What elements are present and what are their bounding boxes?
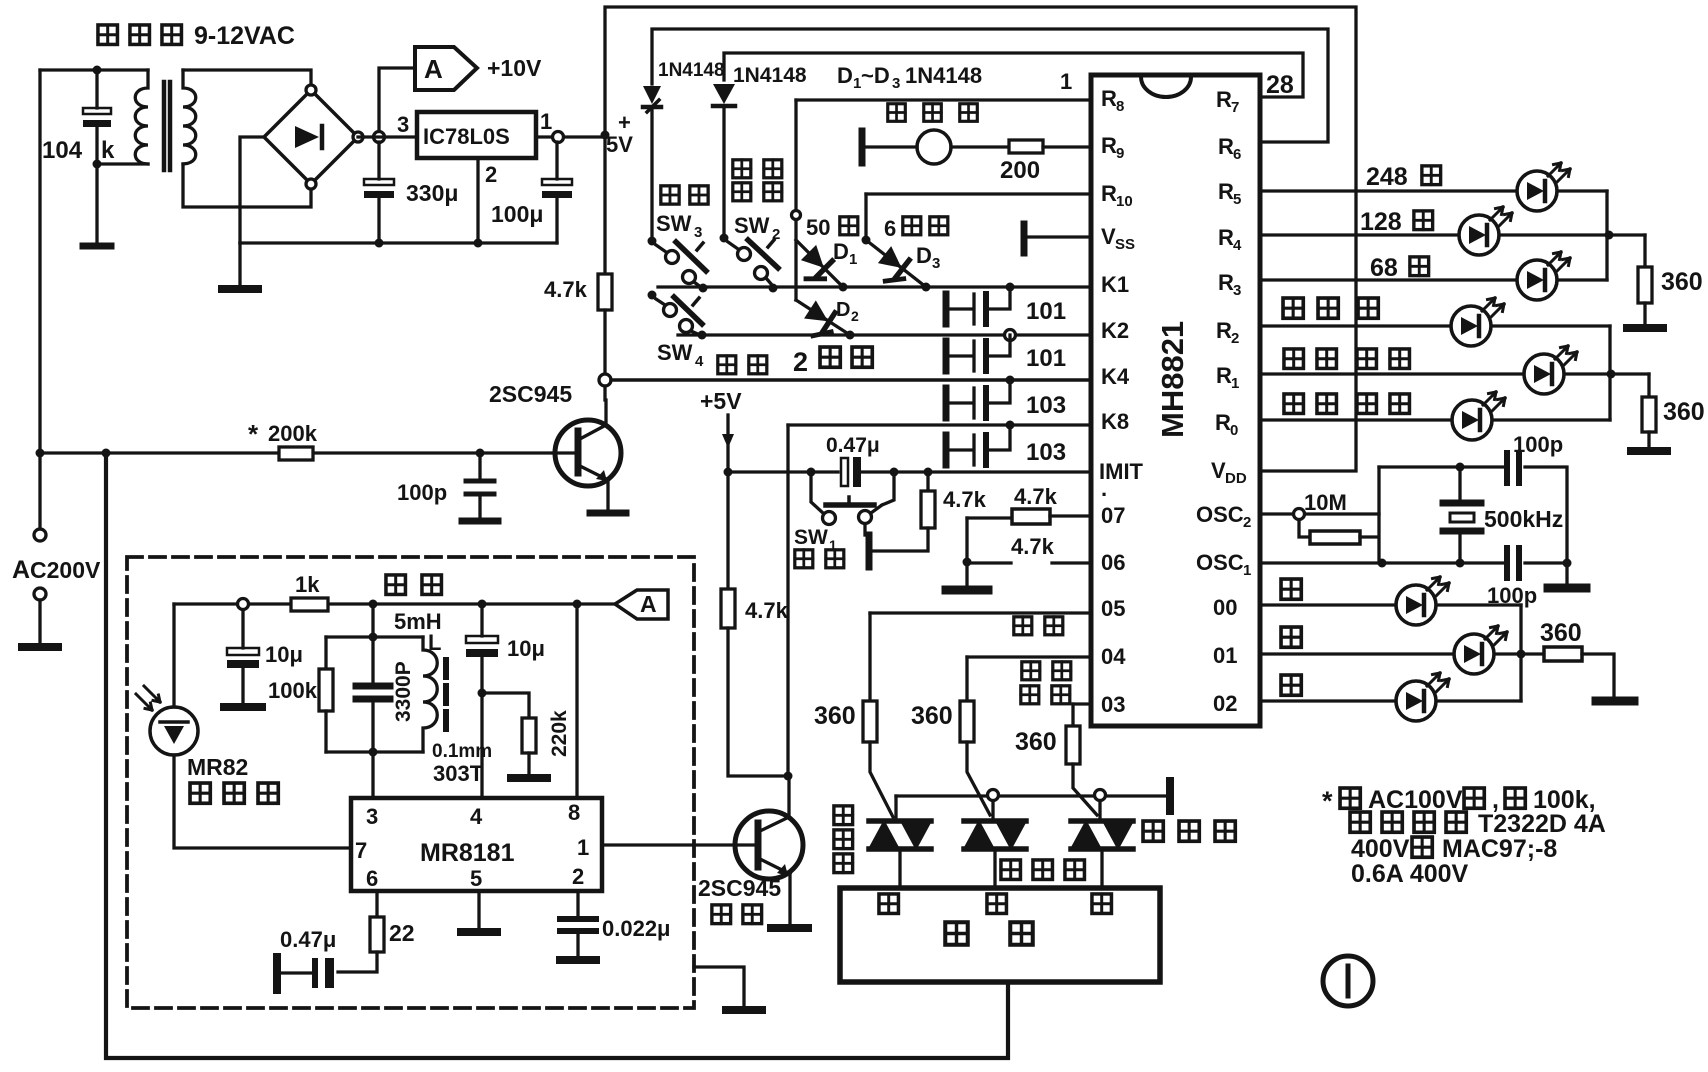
svg-text:V: V <box>1211 458 1226 483</box>
svg-text:0.022μ: 0.022μ <box>602 916 671 941</box>
svg-text:4.7k: 4.7k <box>1014 484 1058 509</box>
wire triac bus <box>896 794 1166 797</box>
node K4 left <box>599 374 611 386</box>
svg-text:7: 7 <box>355 838 367 863</box>
svg-text:K8: K8 <box>1101 409 1129 434</box>
resistor 4.7k imit <box>872 472 935 551</box>
resistor 200 <box>1009 140 1091 153</box>
svg-text:2: 2 <box>1243 514 1251 531</box>
buzzer terminal <box>859 131 866 163</box>
svg-text:1: 1 <box>1060 69 1072 94</box>
wire pin1 to Q2 base <box>602 843 735 846</box>
capacitor 103 a <box>946 380 1010 418</box>
capacitor 101 a <box>946 287 1010 324</box>
inductor core dashed <box>443 660 449 735</box>
MR8181 pin labels <box>355 800 589 891</box>
wire 01 row <box>1260 652 1544 655</box>
svg-text:4: 4 <box>1233 237 1242 254</box>
light arrows MR82 <box>136 686 160 710</box>
svg-text:360: 360 <box>911 702 953 730</box>
transformer T1 secondary <box>183 70 196 164</box>
svg-text:R: R <box>1218 179 1234 204</box>
label SW4 <box>657 340 704 370</box>
svg-text:OSC: OSC <box>1196 502 1244 527</box>
svg-text:AC100V: AC100V <box>1368 786 1463 814</box>
wire LED common c <box>1519 605 1522 701</box>
svg-text:0: 0 <box>1230 422 1238 439</box>
label 50zhou D1 <box>806 215 830 240</box>
svg-text:8: 8 <box>1116 98 1124 115</box>
wire bridge left to ground rail <box>240 137 264 243</box>
resistor 360 b <box>1631 374 1667 451</box>
wire +5V down to 4.7k <box>603 135 606 274</box>
label buzzer (fengmingqi) <box>888 104 978 122</box>
label dingshi (timer) <box>661 186 708 204</box>
label zhong <box>1281 627 1301 647</box>
wire 06 line with gap <box>967 561 1091 564</box>
label fang zi ran feng <box>733 160 782 201</box>
capacitor 100u <box>542 142 572 243</box>
LED R3 <box>1517 252 1570 300</box>
wire R7 loop <box>724 53 1303 97</box>
IC left pin labels <box>1099 86 1144 717</box>
diode D3 <box>866 240 926 289</box>
LED R2 <box>1451 298 1504 346</box>
switch SW4 <box>648 291 707 340</box>
svg-text:K1: K1 <box>1101 272 1129 297</box>
svg-text:SW: SW <box>656 211 692 236</box>
svg-text:248: 248 <box>1366 163 1408 191</box>
svg-text:06: 06 <box>1101 550 1125 575</box>
note line 1 <box>1322 786 1596 816</box>
svg-text:1N4148: 1N4148 <box>658 60 725 81</box>
wire LED common b <box>1608 326 1611 420</box>
wire to transformer primary bottom <box>97 162 148 165</box>
svg-text:68: 68 <box>1370 254 1398 282</box>
svg-text:03: 03 <box>1101 692 1125 717</box>
svg-text:4.7k: 4.7k <box>1011 534 1055 559</box>
label D2 <box>836 299 859 324</box>
wire 07 stub to ground <box>946 518 988 590</box>
wire LED common a <box>1605 191 1608 280</box>
svg-text:3300P: 3300P <box>392 661 415 722</box>
switch SW3 <box>648 237 707 289</box>
ground 104k <box>83 243 111 250</box>
svg-text:R: R <box>1101 133 1117 158</box>
wire R4 row <box>1260 233 1645 236</box>
svg-text:100μ: 100μ <box>491 201 543 227</box>
resistor 360 a <box>1627 235 1663 328</box>
capacitor 104k <box>83 70 111 245</box>
wire K2 line <box>678 333 1091 336</box>
ground Q2 emitter <box>771 924 808 932</box>
wire R3 row <box>1260 278 1607 281</box>
svg-text:K4: K4 <box>1101 364 1130 389</box>
capacitor 101 b <box>946 335 1010 371</box>
label ruofeng <box>1021 686 1070 704</box>
svg-text:D: D <box>916 243 932 268</box>
transistor Q2 2SC945 output <box>735 776 803 926</box>
svg-text:R: R <box>1218 270 1234 295</box>
node junction primary bottom <box>93 160 102 169</box>
svg-text:R: R <box>1215 410 1231 435</box>
label kekonggui mid <box>1001 860 1084 880</box>
resonator 500kHz <box>1443 467 1481 561</box>
svg-text:8: 8 <box>568 800 580 825</box>
LED 02 <box>1396 673 1449 721</box>
svg-text:07: 07 <box>1101 503 1125 528</box>
ground rail under supply <box>240 241 557 244</box>
svg-text:IC78L0S: IC78L0S <box>423 124 510 149</box>
svg-text:R: R <box>1216 363 1232 388</box>
resistor 360 f <box>1066 704 1097 815</box>
svg-text:3: 3 <box>397 112 409 137</box>
transformer T1 primary <box>135 70 148 164</box>
terminal triac bus <box>1166 781 1174 811</box>
node bridge right <box>374 132 385 143</box>
svg-text:330μ: 330μ <box>406 180 458 206</box>
capacitor 103 b <box>946 425 1010 465</box>
svg-text:3: 3 <box>366 804 378 829</box>
svg-text:4: 4 <box>470 804 483 829</box>
wire sw1 contact to bar <box>863 524 866 535</box>
wire VDD supply loop <box>605 7 1356 471</box>
label ruozhouqifeng 2 <box>1284 394 1410 414</box>
wire bottom return <box>106 453 1008 1058</box>
svg-text:00: 00 <box>1213 595 1237 620</box>
svg-text:2SC945: 2SC945 <box>698 875 781 901</box>
label dianji (motor) <box>945 922 1033 945</box>
ground osc <box>1548 563 1586 588</box>
svg-text:0.47μ: 0.47μ <box>280 927 336 952</box>
svg-text:D: D <box>836 299 850 321</box>
svg-text:D: D <box>837 63 853 88</box>
svg-text:7: 7 <box>1231 99 1239 116</box>
svg-text:360: 360 <box>1540 619 1582 647</box>
svg-text:MH8821: MH8821 <box>1155 321 1190 438</box>
wire IMIT line <box>728 470 1091 473</box>
svg-text:MAC97;-8: MAC97;-8 <box>1442 835 1557 863</box>
svg-text:T2322D 4A: T2322D 4A <box>1478 810 1606 838</box>
wire 00 row <box>1260 603 1521 606</box>
svg-text:SS: SS <box>1115 236 1135 253</box>
wire R1 row <box>1260 372 1649 375</box>
svg-text:04: 04 <box>1101 644 1126 669</box>
wire coil rail <box>174 602 614 605</box>
wire R0 row <box>1260 418 1610 421</box>
svg-text:3: 3 <box>694 224 702 241</box>
svg-text:200: 200 <box>1000 157 1040 184</box>
wire pin4 vertical <box>480 693 483 798</box>
diode D2 <box>796 300 850 343</box>
label 104 k <box>42 137 115 164</box>
inductor L coil <box>423 637 437 752</box>
svg-text:500kHz: 500kHz <box>1484 506 1563 532</box>
capacitor 0.47u imit <box>841 457 861 487</box>
wire K1 line <box>658 285 1091 288</box>
dashed box <box>127 557 694 1008</box>
svg-text:101: 101 <box>1026 345 1066 372</box>
wire R10 line <box>866 192 1091 195</box>
transformer core <box>164 82 170 170</box>
wire regulator pin2 down <box>476 158 479 243</box>
label ruozhouqifeng 1 <box>1284 349 1410 369</box>
wire osc top branch <box>1379 467 1567 561</box>
label 128fen <box>1360 208 1433 236</box>
label MR82 guangminguan <box>187 754 278 803</box>
svg-text:4.7k: 4.7k <box>745 598 789 623</box>
wire R8 line <box>796 98 1091 101</box>
wire R6 loop <box>652 29 1328 142</box>
svg-text:1: 1 <box>849 251 857 268</box>
resistor 200k <box>279 447 313 460</box>
note line 2 <box>1350 810 1606 838</box>
wire 02 row <box>1260 699 1521 702</box>
svg-text:103: 103 <box>1026 392 1066 419</box>
capacitor 100p base <box>466 453 494 519</box>
label 248fen <box>1366 163 1441 191</box>
resistor 4.7k supply <box>598 274 612 374</box>
svg-text:1k: 1k <box>295 572 320 597</box>
note line 3 <box>1351 835 1557 863</box>
triac 2 <box>964 801 1026 888</box>
svg-text:6: 6 <box>366 866 378 891</box>
svg-text:100p: 100p <box>1513 432 1563 457</box>
buzzer <box>866 130 1009 164</box>
terminal A in box <box>615 590 668 619</box>
label transformer bianyaqi 9-12VAC <box>98 22 295 50</box>
wire K8 line <box>788 423 1091 426</box>
svg-text:A: A <box>640 591 657 617</box>
svg-text:1: 1 <box>1243 562 1251 579</box>
LED 01 <box>1454 626 1507 674</box>
circled 1 <box>1323 956 1373 1006</box>
svg-text:1N4148: 1N4148 <box>905 63 982 88</box>
resistor 22 <box>338 891 384 972</box>
motor box <box>840 888 1160 982</box>
svg-text:103: 103 <box>1026 439 1066 466</box>
wire osc1 right <box>1525 561 1567 564</box>
svg-text:A: A <box>424 54 443 84</box>
svg-text:4.7k: 4.7k <box>544 277 588 302</box>
svg-text:2: 2 <box>851 308 859 324</box>
svg-text:D: D <box>833 239 849 264</box>
label xianquan (coil) <box>386 575 442 595</box>
node +5V <box>601 131 610 140</box>
svg-text:5: 5 <box>470 866 482 891</box>
resistor 4.7k 07 <box>967 509 1091 524</box>
label qiang/zhong/ruo motor <box>879 894 1111 914</box>
wire bridge out <box>358 135 417 138</box>
svg-text:+10V: +10V <box>487 55 542 81</box>
svg-text:360: 360 <box>1663 398 1705 426</box>
capacitor 100p top <box>1507 453 1519 483</box>
transistor Q1 2SC945 <box>553 400 621 511</box>
svg-text:OSC: OSC <box>1196 550 1244 575</box>
wire 04 row <box>967 655 1091 658</box>
svg-text:2: 2 <box>572 864 584 889</box>
label AC200V <box>12 556 101 584</box>
LED R0 <box>1452 392 1505 440</box>
label +5V arrow <box>700 388 742 472</box>
IC MH8821 body <box>1091 75 1260 726</box>
svg-text:104: 104 <box>42 137 83 164</box>
svg-text:6: 6 <box>884 216 896 241</box>
svg-text:3: 3 <box>1233 282 1241 299</box>
diode D1 <box>794 240 843 288</box>
LED R4 <box>1459 207 1512 255</box>
capacitor 10u b <box>466 604 498 693</box>
wire K4 line <box>611 378 1091 382</box>
svg-text:0.6A 400V: 0.6A 400V <box>1351 860 1469 888</box>
bridge rectifier <box>264 85 363 189</box>
svg-text:5V: 5V <box>606 132 633 157</box>
svg-text:R: R <box>1101 86 1117 111</box>
wire tank bottom <box>326 750 423 753</box>
svg-text:101: 101 <box>1026 298 1066 325</box>
svg-text:2: 2 <box>1231 330 1239 347</box>
label SW3 <box>656 211 702 241</box>
wire secondary top to bridge <box>183 70 311 88</box>
svg-text:9: 9 <box>1116 145 1124 162</box>
svg-text:6: 6 <box>1233 146 1241 163</box>
svg-text:1: 1 <box>540 109 552 134</box>
svg-text:C200V: C200V <box>30 557 101 583</box>
wire tank top <box>326 635 423 638</box>
label qiangfeng <box>1014 617 1063 635</box>
capacitor 330u <box>364 142 394 243</box>
label zhongfeng <box>1022 662 1071 680</box>
resistor 360 c <box>1544 647 1634 701</box>
wire R10 vertical <box>864 194 867 240</box>
label kekonggui right <box>1143 821 1235 841</box>
svg-text:4.7k: 4.7k <box>943 487 987 512</box>
wire +10V riser <box>379 68 415 131</box>
terminal Vss <box>1024 224 1091 253</box>
svg-text:.: . <box>1101 476 1107 501</box>
svg-text:100p: 100p <box>397 480 447 505</box>
svg-text:SW: SW <box>657 340 693 365</box>
IC MR8181 <box>351 798 602 891</box>
resistor 10M <box>1299 467 1379 563</box>
terminal AC200V <box>22 529 58 647</box>
wire OSC1 <box>1260 561 1504 564</box>
svg-text:5: 5 <box>1233 191 1241 208</box>
node junction 104k top <box>93 66 102 75</box>
label kekonggui left <box>834 806 853 873</box>
resistor 4.7k output <box>721 472 788 776</box>
svg-text:360: 360 <box>1015 728 1057 756</box>
svg-text:*: * <box>248 419 259 449</box>
svg-text:360: 360 <box>814 702 856 730</box>
wire pin5 ground <box>461 891 497 932</box>
wire pin3 vertical <box>371 604 374 798</box>
LED R5 <box>1517 163 1570 211</box>
svg-text:3: 3 <box>932 255 940 272</box>
svg-text:R: R <box>1216 318 1232 343</box>
wire AC top rail <box>40 68 148 71</box>
LED R1 <box>1524 346 1577 394</box>
svg-text:2SC945: 2SC945 <box>489 381 572 407</box>
label 2 xiaoshi <box>793 347 872 377</box>
label SW1 guanbi <box>794 526 837 553</box>
svg-text:02: 02 <box>1213 691 1237 716</box>
resistor 360 d <box>863 613 893 817</box>
svg-text:SW: SW <box>734 213 770 238</box>
node OSC2 <box>1294 509 1305 520</box>
svg-text:~D: ~D <box>861 63 890 88</box>
svg-text:9-12VAC: 9-12VAC <box>194 22 295 50</box>
svg-text:220k: 220k <box>548 710 571 757</box>
capacitor 0.47u b <box>277 957 334 990</box>
svg-text:100k: 100k <box>268 678 318 703</box>
svg-text:3: 3 <box>892 75 900 92</box>
svg-text:10: 10 <box>1116 193 1133 210</box>
svg-text:1: 1 <box>1231 375 1239 392</box>
capacitor 100p bottom <box>1507 548 1519 578</box>
IC right pin labels <box>1196 87 1251 716</box>
label 68fen <box>1370 254 1429 282</box>
svg-text:01: 01 <box>1213 643 1237 668</box>
svg-text:R: R <box>1216 87 1232 112</box>
diode 1N4148 a <box>643 86 661 243</box>
svg-text:28: 28 <box>1266 71 1294 99</box>
triac 1 <box>869 796 931 888</box>
terminal A +10V <box>415 47 477 90</box>
svg-text:303T: 303T <box>433 761 484 786</box>
svg-text:*: * <box>1322 786 1333 816</box>
label ruo <box>1281 579 1301 599</box>
ground 10u a <box>224 703 262 711</box>
capacitor 0.022u <box>560 891 596 960</box>
svg-text:200k: 200k <box>268 421 318 446</box>
wire OSC2 <box>1260 512 1293 515</box>
wire 05 row <box>870 611 1091 614</box>
svg-text:A: A <box>12 556 30 584</box>
svg-text:V: V <box>1101 224 1116 249</box>
svg-text:10M: 10M <box>1304 490 1347 515</box>
LED 00 <box>1396 577 1449 625</box>
wire K8 vertical to collector <box>786 425 789 776</box>
wire R2 row <box>1260 324 1610 327</box>
svg-text:128: 128 <box>1360 208 1402 236</box>
label D1~D3 1N4148 <box>837 63 982 92</box>
svg-text:2: 2 <box>793 347 808 377</box>
svg-text:R: R <box>1218 225 1234 250</box>
label 6 xiaoshi D3 <box>884 216 948 241</box>
wire regulator output <box>536 135 605 138</box>
label 0.1mm 303T <box>432 741 492 786</box>
svg-text:SW: SW <box>794 526 828 549</box>
label sudu (speed) <box>718 356 767 374</box>
wire AC left vertical <box>38 70 41 529</box>
svg-text:22: 22 <box>389 920 415 946</box>
svg-text:1N4148: 1N4148 <box>733 64 807 87</box>
wire pin8 vertical <box>575 604 578 798</box>
label shuimianfeng <box>1283 298 1378 318</box>
switch SW1 <box>811 472 894 525</box>
svg-text:DD: DD <box>1225 470 1247 487</box>
label 2SC945 output <box>698 875 781 924</box>
svg-text:360: 360 <box>1661 268 1703 296</box>
wire OSC2 to riser <box>1305 512 1379 515</box>
label qiang <box>1281 675 1301 695</box>
svg-text:400V: 400V <box>1351 835 1410 863</box>
wire base line 200k <box>40 451 553 454</box>
svg-text:0.47μ: 0.47μ <box>826 434 880 457</box>
switch SW2 <box>720 234 779 293</box>
svg-text:10μ: 10μ <box>265 642 303 667</box>
